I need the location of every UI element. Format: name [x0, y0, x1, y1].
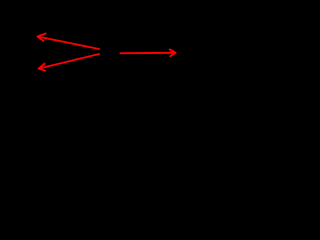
- arrow right: head: [170, 49, 176, 56]
- arrow upper-left: head: [37, 34, 45, 41]
- arrow upper-left: shaft: [38, 37, 99, 49]
- arrow right: shaft: [120, 52, 175, 55]
- arrow lower-left: head: [39, 64, 46, 71]
- arrow lower-left: shaft: [39, 54, 99, 69]
